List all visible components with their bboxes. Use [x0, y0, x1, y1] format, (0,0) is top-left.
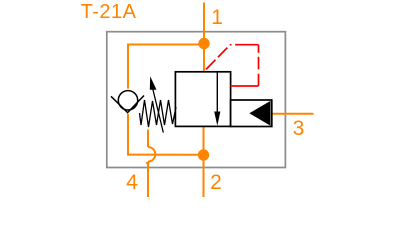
wire down to check valve — [127, 44, 129, 89]
adjustment arrow shaft — [153, 89, 164, 133]
wire port 3 horizontal — [271, 113, 314, 115]
svg-text:T-21A: T-21A — [81, 1, 137, 23]
pilot line bottom horizontal — [231, 85, 259, 87]
svg-text:1: 1 — [211, 6, 223, 29]
wire valve bottom to node2 — [203, 127, 205, 156]
boundary box (cavity outline) — [107, 32, 286, 168]
wire node1 to valve top — [203, 44, 205, 72]
wire arc end tick — [146, 162, 150, 164]
pilot line top horizontal — [230, 44, 259, 46]
svg-text:2: 2 — [210, 171, 222, 194]
node J1 — [198, 38, 209, 49]
wire node1 horizontal left — [128, 44, 205, 46]
check valve seat — [111, 96, 144, 113]
spring — [140, 100, 177, 127]
svg-text:3: 3 — [293, 117, 305, 140]
pilot line right vertical — [258, 45, 260, 86]
flow arrow shaft — [216, 72, 218, 113]
node J2 — [198, 149, 209, 160]
wire check valve to bottom — [127, 114, 129, 155]
valve body envelope — [175, 72, 230, 127]
wire port 4 vertical lower — [147, 162, 149, 197]
check valve circle — [118, 91, 137, 110]
wire port 2 vertical — [203, 155, 205, 197]
wire port 4 drain upper — [147, 130, 149, 148]
pilot line diagonal (red dashed) — [206, 45, 230, 69]
wire port 4 crossover arc — [148, 147, 155, 162]
svg-text:4: 4 — [126, 171, 138, 194]
actuator triangle — [249, 101, 270, 126]
pilot actuator box — [231, 100, 272, 127]
wire bottom horizontal — [127, 154, 204, 156]
flow arrow head (down) — [214, 112, 220, 126]
wire port 1 vertical — [203, 3, 205, 44]
adjustment arrow head — [150, 76, 157, 90]
